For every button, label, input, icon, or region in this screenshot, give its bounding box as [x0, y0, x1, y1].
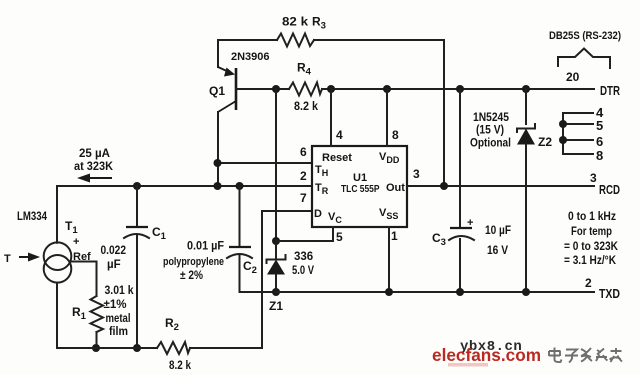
node TH-collector junction	[214, 159, 222, 167]
svg-text:2: 2	[300, 169, 307, 183]
svg-text:5: 5	[596, 118, 603, 133]
svg-text:8.2 k: 8.2 k	[169, 358, 191, 372]
node base-zener junction	[272, 85, 280, 93]
C2 value annotation	[163, 241, 224, 283]
svg-text:3.01 k: 3.01 k	[105, 285, 135, 297]
node Z2 top junction	[522, 85, 530, 93]
wire pin8 vertical	[386, 89, 388, 146]
resistor R2	[157, 342, 190, 354]
svg-text:1: 1	[391, 229, 398, 243]
wire C2 bottom to ground rail	[240, 256, 277, 292]
node C3 bottom junction	[456, 288, 464, 296]
wire base/VDD rail with R4 left part	[236, 88, 289, 90]
resistor R1	[91, 296, 104, 332]
C1 value label	[101, 245, 127, 271]
wire LM334 bottom vertical	[56, 283, 58, 349]
svg-text:20: 20	[566, 70, 580, 84]
svg-text:± 2%: ± 2%	[180, 270, 203, 282]
wire C1 top vertical	[136, 186, 138, 227]
svg-text:Optional: Optional	[470, 136, 511, 150]
svg-text:at 323K: at 323K	[74, 159, 113, 173]
IC U1 TLC555P outline	[312, 146, 407, 227]
resistor R3	[277, 34, 314, 47]
node connector pin6 junction	[559, 136, 567, 144]
wire TR line	[57, 185, 312, 187]
wire C2 top vertical	[239, 186, 241, 247]
zener diode Z1 (LM336 5.0V)	[267, 255, 286, 275]
node Z1 top junction	[272, 237, 280, 245]
node R3 feedback junction	[440, 182, 448, 190]
svg-text:Z1: Z1	[269, 299, 283, 313]
connector tie vertical	[562, 113, 564, 154]
wire Z2 cathode vertical	[525, 89, 527, 124]
wire LM334 top vertical	[56, 186, 58, 243]
svg-text:For temp: For temp	[571, 224, 612, 238]
svg-text:= 0 to 323K: = 0 to 323K	[564, 239, 618, 253]
wire TXD ground rail	[276, 291, 594, 293]
svg-text:5: 5	[336, 230, 343, 244]
svg-text:82 k: 82 k	[282, 15, 308, 29]
node pin4 junction	[327, 85, 335, 93]
svg-text:film: film	[109, 326, 128, 338]
connector stub pin 4	[563, 112, 593, 114]
watermark chinese characters	[549, 348, 622, 363]
svg-text:3: 3	[413, 167, 420, 181]
wire ground rail left	[57, 347, 157, 349]
svg-text:DB25S (RS-232): DB25S (RS-232)	[549, 30, 621, 42]
svg-text:Out: Out	[386, 182, 405, 194]
wire R1 to ground rail	[96, 332, 98, 348]
resistor R4	[289, 83, 322, 96]
wire Z1 cathode stub	[275, 241, 277, 259]
node Z1 bottom junction	[272, 288, 280, 296]
svg-text:0.01 µF: 0.01 µF	[187, 241, 224, 253]
svg-text:+: +	[467, 217, 473, 229]
wire pin1 VSS to ground	[388, 227, 390, 292]
wire pin4 vertical	[330, 89, 332, 146]
svg-text:µF: µF	[107, 259, 121, 271]
svg-text:TLC 555P: TLC 555P	[341, 183, 380, 195]
svg-text:elecfans.com: elecfans.com	[432, 345, 541, 365]
svg-text:8: 8	[392, 128, 399, 142]
wire VDD/DTR rail to right	[322, 88, 594, 90]
connector stub pin 6	[563, 139, 593, 141]
svg-text:±1%: ±1%	[104, 299, 127, 311]
wire R3 right vertical to Out	[443, 40, 445, 186]
svg-text:6: 6	[300, 145, 307, 159]
svg-text:(15 V): (15 V)	[476, 123, 504, 137]
svg-text:16 V: 16 V	[487, 243, 508, 257]
wire discharge horizontal to pin7	[262, 210, 312, 212]
wire top rail left segment	[218, 39, 277, 41]
connector stub pin 5	[563, 123, 593, 125]
wire Ref to R1	[70, 262, 97, 297]
svg-text:+: +	[73, 236, 79, 248]
node Z2 bottom junction	[522, 288, 530, 296]
node C3 top junction	[456, 85, 464, 93]
wire pin5 control voltage	[276, 227, 333, 241]
wire Z2 anode to ground	[525, 144, 527, 292]
capacitor C2	[227, 247, 252, 258]
watermark faint red small text	[448, 363, 488, 367]
output annotation block	[564, 209, 618, 267]
wire discharge vertical	[261, 211, 263, 348]
svg-text:LM334: LM334	[17, 209, 47, 223]
svg-text:6: 6	[596, 134, 603, 149]
wire C1 bottom vertical	[136, 236, 138, 348]
node TR-collector junction	[214, 182, 222, 190]
zener diode Z2 (1N5245)	[517, 124, 535, 145]
svg-text:Q1: Q1	[209, 84, 225, 98]
node C1 top junction	[133, 182, 141, 190]
svg-text:Z2: Z2	[538, 135, 552, 149]
wire C3 bottom vertical	[459, 239, 461, 292]
svg-text:polypropylene: polypropylene	[163, 256, 224, 268]
wire Out to RCD	[407, 185, 594, 187]
wire TH line	[217, 162, 312, 164]
svg-text:Reset: Reset	[322, 152, 352, 164]
svg-text:8.2 k: 8.2 k	[294, 99, 318, 113]
wire C3 top vertical	[459, 89, 461, 228]
current direction arrow 25 uA	[77, 174, 112, 183]
svg-text:5.0 V: 5.0 V	[292, 265, 314, 277]
wire top rail right segment	[314, 39, 444, 41]
svg-text:D: D	[314, 208, 322, 220]
connector stub pin 8	[563, 153, 593, 155]
R1 value annotation	[104, 285, 135, 338]
wire Z1 anode to ground	[275, 274, 277, 292]
svg-text:T: T	[4, 253, 11, 265]
svg-text:metal: metal	[106, 313, 131, 325]
svg-text:25 µA: 25 µA	[79, 146, 110, 160]
capacitor C1	[124, 227, 149, 238]
svg-text:8: 8	[596, 148, 603, 163]
svg-text:2: 2	[585, 276, 592, 290]
svg-text:7: 7	[300, 191, 307, 205]
node pin8 junction	[383, 85, 391, 93]
input arrow T	[19, 253, 40, 262]
wire Q1 emitter vertical	[217, 40, 219, 67]
transistor Q1 (2N3906 PNP)	[218, 67, 236, 112]
svg-text:4: 4	[336, 128, 343, 142]
node C1 bottom junction	[133, 344, 141, 352]
node pin1 ground junction	[385, 288, 393, 296]
svg-text:10 µF: 10 µF	[485, 223, 511, 237]
connector brace	[558, 49, 610, 69]
node R1 bottom junction	[92, 344, 100, 352]
svg-text:TXD: TXD	[599, 287, 620, 301]
svg-text:2N3906: 2N3906	[231, 51, 270, 63]
svg-text:0.022: 0.022	[101, 245, 127, 257]
node C2 top junction	[236, 182, 244, 190]
current source T1 circles	[44, 242, 72, 282]
svg-text:0 to 1 kHz: 0 to 1 kHz	[568, 209, 616, 223]
svg-text:RCD: RCD	[599, 183, 620, 197]
svg-text:= 3.1 Hz/°K: = 3.1 Hz/°K	[564, 253, 616, 267]
svg-text:DTR: DTR	[600, 84, 620, 98]
node connector pin5 junction	[559, 120, 567, 128]
wire Q1 collector vertical	[217, 112, 219, 186]
capacitor C3	[449, 228, 474, 240]
wire zener reference vertical	[275, 89, 277, 241]
Z2 annotation 1N5245	[470, 110, 511, 150]
wire ground rail right to D loop	[190, 347, 262, 349]
svg-text:336: 336	[294, 251, 313, 263]
svg-text:3: 3	[590, 171, 597, 185]
